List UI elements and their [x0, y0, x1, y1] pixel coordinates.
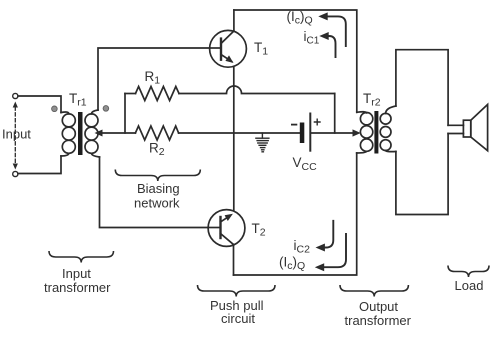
svg-text:circuit: circuit: [221, 311, 255, 326]
wire: Tr1 secondary top to T1 base: [98, 48, 210, 110]
battery negative plate: [300, 123, 305, 144]
input signal dashed arrow: [13, 102, 18, 170]
svg-text:transformer: transformer: [345, 313, 412, 328]
transformer Tr1 primary coil: [61, 112, 69, 114]
battery positive plate: [309, 114, 311, 151]
resistor R1: [136, 87, 180, 101]
polarity dot left: [52, 106, 58, 112]
polarity dot right: [103, 106, 109, 112]
wire: bias line into Tr1 secondary (arrowhead): [95, 130, 103, 137]
wire: T2 collector down to bottom rail: [233, 245, 235, 276]
svg-text:Input: Input: [62, 266, 91, 281]
wire: T1 collector up to top rail: [233, 10, 235, 31]
current arrow iC1: [328, 36, 336, 57]
battery minus sign: [292, 124, 297, 126]
speaker cone: [471, 105, 488, 151]
wire: Tr1 secondary bottom to T2 base: [100, 157, 209, 228]
battery plus sign: [314, 119, 320, 125]
wire: R1 branch vertical: [124, 94, 126, 134]
svg-text:network: network: [134, 196, 180, 211]
svg-text:Output: Output: [359, 299, 398, 314]
wire: R2 right to battery: [179, 132, 300, 134]
wire: bias line R2 left lead: [102, 132, 136, 134]
transformer Tr2 secondary coil: [386, 106, 396, 114]
current arrow (Ic)Q top: [327, 16, 346, 46]
wire: battery to Tr2 center tap: [311, 132, 352, 134]
wire: bottom input terminal to Tr1 primary: [18, 156, 61, 174]
brace push pull circuit: [198, 285, 276, 297]
arrowhead into Tr2 primary: [353, 129, 361, 136]
transistor T1: [210, 30, 247, 67]
svg-text:Biasing: Biasing: [137, 181, 180, 196]
transformer Tr1 secondary coil: [92, 110, 99, 114]
speaker driver: [463, 120, 470, 137]
wire: R1 branch down to supply line: [334, 94, 336, 134]
current arrow (Ic)Q bottom: [325, 234, 347, 267]
brace input transformer: [49, 251, 114, 263]
svg-text:Load: Load: [455, 278, 484, 293]
wire: R1 left lead: [125, 93, 136, 95]
ground: [256, 133, 269, 152]
wire: R1 right with hop over emitter line: [179, 86, 335, 94]
brace output transformer: [340, 285, 408, 297]
svg-text:transformer: transformer: [44, 280, 111, 295]
input terminal top: [13, 93, 18, 98]
brace load: [448, 266, 489, 278]
wire: bottom rail to Tr2 primary bottom: [234, 153, 357, 275]
wire: top input terminal to Tr1 primary: [18, 96, 61, 113]
brace biasing network: [115, 170, 200, 182]
transformer Tr2 primary coil: [357, 112, 367, 113]
resistor R2: [135, 126, 178, 140]
svg-text:Input: Input: [2, 127, 31, 142]
wire: top rail to Tr2 primary: [234, 10, 357, 112]
speaker leads: [448, 124, 463, 126]
transformer Tr2 core: [374, 111, 378, 154]
input terminal bottom: [13, 171, 18, 176]
transistor T2: [208, 210, 245, 247]
load loop box: [396, 50, 448, 126]
wire: emitters T1-T2 vertical: [233, 67, 235, 211]
current arrow iC2: [325, 221, 334, 248]
transformer Tr1 core: [78, 112, 83, 155]
